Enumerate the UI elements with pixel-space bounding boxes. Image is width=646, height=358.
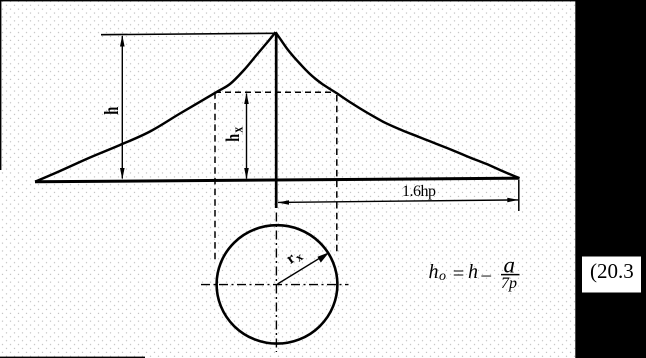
- ground baseline: [35, 178, 520, 182]
- scan artifact: left edge line: [0, 0, 1, 170]
- svg-text:h: h: [468, 261, 478, 283]
- dimension h: top arrowhead: [120, 35, 125, 47]
- dashed horizontal line at hx level: [215, 91, 331, 93]
- circle (base outline): [217, 225, 338, 343]
- vertical dash-dot centerline of circle: [275, 213, 277, 353]
- radius rx arrow: [278, 254, 327, 284]
- right branch of peak curve: [276, 32, 520, 178]
- scan artifact: bottom-left edge line: [0, 357, 145, 358]
- dimension line 1.6hp: [278, 200, 519, 203]
- dimension h: bottom arrowhead: [120, 168, 125, 180]
- fraction bar of a/7p: [501, 274, 520, 276]
- white equation-number box: [582, 257, 641, 293]
- svg-text:a: a: [504, 252, 516, 277]
- formula h_o = h - a/7p: [429, 252, 518, 292]
- radius arrowhead: [318, 252, 330, 262]
- left branch of peak curve: [36, 32, 276, 181]
- label rx (rotated along radius): [283, 245, 305, 269]
- 1.6hp right arrowhead: [507, 198, 518, 203]
- black sidebar strip: [575, 0, 646, 358]
- dimension hx: top arrowhead: [244, 93, 249, 104]
- svg-text:–: –: [481, 265, 492, 286]
- thick center axis line of peak: [275, 33, 278, 209]
- svg-text:h: h: [100, 107, 123, 115]
- svg-text:(20.3: (20.3: [590, 259, 634, 283]
- top dimension line at peak height: [101, 33, 276, 34]
- svg-text:=: =: [453, 263, 465, 285]
- dimension hx: bottom arrowhead: [244, 168, 249, 180]
- dashed vertical line left (tangent to circle): [214, 92, 216, 262]
- svg-text:7p: 7p: [501, 275, 517, 292]
- extension line at right end of baseline: [518, 180, 520, 211]
- dimension hx: vertical line: [246, 94, 248, 179]
- dashed vertical line right (tangent to circle): [336, 95, 338, 252]
- svg-text:1.6hp: 1.6hp: [402, 183, 436, 200]
- horizontal dash-dot centerline of circle: [201, 284, 349, 286]
- scan artifact: top edge line: [0, 0, 646, 1]
- 1.6hp left arrowhead: [278, 200, 289, 205]
- dimension h: vertical line: [121, 36, 123, 179]
